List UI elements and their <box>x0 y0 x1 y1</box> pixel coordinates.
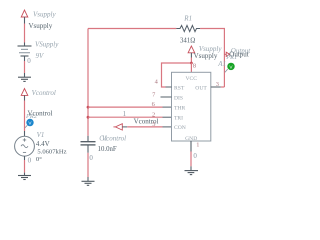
svg-text:VCC: VCC <box>185 76 197 82</box>
pin stem GND + wire <box>190 141 192 152</box>
svg-text:VSupply: VSupply <box>35 41 59 49</box>
svg-text:RST: RST <box>174 85 185 91</box>
svg-text:3: 3 <box>216 81 219 88</box>
svg-text:10.0nF: 10.0nF <box>98 146 117 153</box>
svg-text:0: 0 <box>89 154 93 162</box>
svg-text:TRI: TRI <box>174 116 183 122</box>
svg-text:CON: CON <box>174 125 186 131</box>
wire <box>87 153 89 177</box>
svg-text:Output: Output <box>229 50 249 58</box>
svg-text:6: 6 <box>152 101 155 108</box>
ground <box>185 171 199 175</box>
svg-text:0: 0 <box>27 57 31 65</box>
op-amp / timer U1 (A1 555) body <box>172 60 227 142</box>
svg-text:9V: 9V <box>36 52 45 60</box>
svg-text:Vsupply: Vsupply <box>194 52 218 60</box>
wire <box>24 101 26 132</box>
wire right vertical (OUT) <box>223 29 225 88</box>
node Vcontrol (connector at CON) <box>102 118 159 143</box>
svg-text:THR: THR <box>174 105 185 111</box>
pin stem RST <box>166 86 172 88</box>
wire left vertical <box>87 29 89 136</box>
svg-text:5: 5 <box>152 121 155 128</box>
source V1 4.4V 5.0607kHz <box>15 131 67 163</box>
ground <box>18 173 31 180</box>
svg-text:R1: R1 <box>183 14 192 22</box>
wire top horizontal <box>88 28 176 30</box>
svg-text:0°: 0° <box>36 156 42 163</box>
svg-text:8: 8 <box>193 62 196 69</box>
pin stem OUT <box>211 86 221 88</box>
ground <box>18 73 31 81</box>
wire <box>24 160 26 173</box>
node Vcontrol (connector at V1 top) <box>21 89 56 120</box>
svg-text:341Ω: 341Ω <box>180 37 195 44</box>
svg-text:1: 1 <box>123 110 127 118</box>
svg-text:C1: C1 <box>99 134 107 142</box>
battery V2 VSupply 9V <box>18 41 60 62</box>
svg-text:DIS: DIS <box>174 95 183 101</box>
wire <box>24 24 26 43</box>
svg-text:Vsupply: Vsupply <box>29 22 53 30</box>
node Output connector <box>224 47 251 61</box>
svg-text:OUT: OUT <box>195 85 207 91</box>
svg-text:0: 0 <box>28 157 32 165</box>
capacitor C1 10.0nF <box>81 134 117 153</box>
svg-text:A1: A1 <box>217 60 226 68</box>
wire TRI <box>88 116 163 118</box>
wire CON <box>127 126 162 128</box>
node Vsupply (connector at battery top) <box>21 10 56 30</box>
svg-text:5.0607kHz: 5.0607kHz <box>37 149 66 156</box>
probe PR1 (green V) <box>225 63 235 73</box>
svg-text:Vcontrol: Vcontrol <box>28 109 53 117</box>
resistor R1 341ohm <box>176 14 200 44</box>
svg-text:Vsupply: Vsupply <box>33 11 56 19</box>
probe PR2 (blue V) <box>25 119 34 128</box>
svg-text:1: 1 <box>196 141 199 148</box>
svg-text:Vcontrol: Vcontrol <box>32 89 56 97</box>
wire THR <box>88 106 163 108</box>
wire VCC stem <box>190 63 192 72</box>
node Vsupply (connector at VCC) <box>188 45 222 63</box>
ground <box>82 177 95 185</box>
wire RST loop <box>162 63 192 87</box>
pin stem DIS (unconnected) <box>161 96 172 98</box>
wire <box>24 61 26 73</box>
svg-text:V1: V1 <box>37 131 45 139</box>
junction <box>190 62 193 65</box>
svg-text:4.4V: 4.4V <box>36 140 50 148</box>
junction <box>87 106 90 109</box>
svg-text:2: 2 <box>152 111 155 118</box>
junction <box>87 116 90 119</box>
svg-text:0: 0 <box>193 152 197 160</box>
